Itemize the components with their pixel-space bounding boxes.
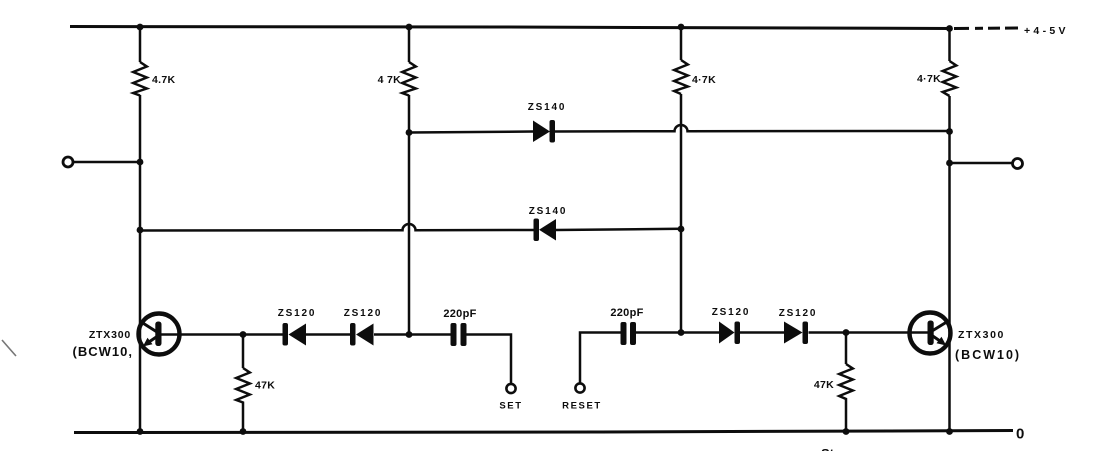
svg-text:ZS120: ZS120 — [344, 308, 382, 319]
svg-text:ZS120: ZS120 — [712, 307, 750, 318]
scan artifact: faint St mark — [821, 446, 835, 451]
svg-text:ZS120: ZS120 — [779, 308, 817, 319]
resistor R4 4.7K — [917, 61, 956, 96]
svg-text:RESET: RESET — [562, 401, 602, 412]
svg-text:St: St — [821, 446, 835, 451]
svg-text:+4-5V: +4-5V — [1024, 25, 1069, 37]
svg-text:47K: 47K — [814, 379, 834, 391]
node: right base bias junction — [843, 329, 850, 336]
wire: dashed rail extension to +4-5V — [954, 27, 1018, 31]
svg-text:220pF: 220pF — [610, 307, 643, 319]
svg-text:4.7K: 4.7K — [152, 74, 175, 86]
capacitor C2 220pF — [610, 307, 643, 345]
wire: right output stub — [950, 162, 1013, 165]
svg-text:ZTX300: ZTX300 — [89, 329, 131, 341]
label Q1 ZTX300 (BCW10, — [73, 329, 133, 359]
diode D4 ZS120 — [344, 308, 382, 346]
wire: +V top supply rail — [70, 27, 951, 29]
diode D6 ZS120 — [779, 308, 817, 344]
svg-text:ZS140: ZS140 — [529, 206, 567, 217]
node: bottom rail junction at R5 — [240, 428, 247, 435]
svg-text:ZS140: ZS140 — [528, 102, 566, 113]
wire: left collector vertical (V1) — [139, 27, 142, 431]
node: left output junction — [137, 159, 144, 166]
wire: left output stub — [73, 161, 140, 164]
wire: third vertical (V3) — [680, 27, 683, 333]
svg-text:ZS120: ZS120 — [278, 308, 316, 319]
svg-text:47K: 47K — [255, 380, 275, 392]
wire: right collector vertical (V4) — [948, 29, 951, 432]
wire: second vertical (V2) — [408, 27, 411, 334]
wire: 0V bottom rail — [74, 431, 1013, 433]
node: upper row right junction on V4 — [946, 128, 953, 135]
node: V3 to capacitor junction — [678, 329, 685, 336]
label 0 — [1016, 426, 1024, 443]
svg-text:ZTX300: ZTX300 — [958, 329, 1005, 341]
node: lower row left junction — [137, 227, 144, 234]
transistor Q1 ZTX300 (left) — [139, 314, 180, 355]
capacitor C1 220pF — [443, 308, 476, 346]
node: top rail junction at V4 — [946, 25, 953, 32]
diode D2 ZS140 — [529, 206, 567, 241]
wire: lower coupling row with hop over V2 — [140, 224, 681, 230]
resistor R2 4.7K — [378, 62, 416, 96]
svg-text:0: 0 — [1016, 426, 1024, 443]
diode D5 ZS120 — [712, 307, 750, 344]
svg-text:4·7K: 4·7K — [917, 73, 941, 85]
resistor R1 4.7K — [133, 62, 175, 96]
label +4-5V — [1024, 25, 1069, 37]
diode D3 ZS120 — [278, 308, 316, 346]
terminal: SET input — [499, 384, 522, 412]
node: upper row left junction on V2 — [406, 129, 413, 136]
terminal: left output — [63, 157, 73, 167]
wire: upper coupling row with hop over V3 — [409, 125, 950, 132]
node: right output junction — [946, 160, 953, 167]
label Q2 ZTX300 (BCW10) — [955, 329, 1021, 362]
terminal: right output — [1013, 159, 1023, 169]
svg-text:SET: SET — [499, 401, 522, 412]
scan artifact: corner scratch — [2, 340, 16, 356]
node: bottom rail junction at V4 — [946, 428, 953, 435]
node: lower row right junction on V3 — [678, 226, 685, 233]
svg-text:(BCW10,: (BCW10, — [73, 344, 133, 359]
svg-text:4 7K: 4 7K — [378, 74, 401, 86]
node: bottom rail junction at R6 — [843, 428, 850, 435]
svg-text:220pF: 220pF — [443, 308, 476, 320]
terminal: RESET input — [562, 383, 602, 411]
svg-text:4·7K: 4·7K — [692, 74, 716, 86]
node: top rail junction at V1 — [137, 24, 144, 31]
node: top rail junction at V3 — [678, 24, 685, 31]
svg-text:(BCW10): (BCW10) — [955, 348, 1021, 362]
wire: right base row — [580, 333, 928, 384]
node: bottom rail junction at V1 — [137, 428, 144, 435]
node: top rail junction at V2 — [406, 24, 413, 31]
diode D1 ZS140 — [528, 102, 566, 143]
transistor Q2 ZTX300 (right) — [910, 313, 951, 354]
resistor R6 47K (right base bias) — [814, 333, 853, 432]
resistor R3 4.7K — [674, 60, 716, 94]
wire: left base row — [161, 335, 511, 385]
resistor R5 47K (left base bias) — [236, 335, 275, 432]
node: left base bias junction — [240, 331, 247, 338]
node: V2 to capacitor junction — [406, 331, 413, 338]
